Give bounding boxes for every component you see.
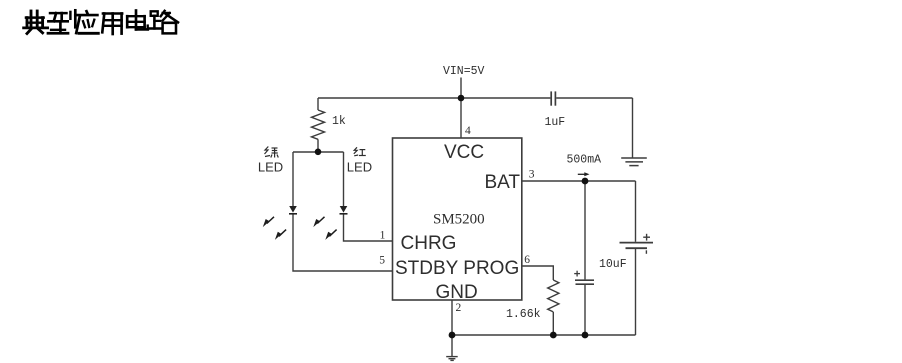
svg-text:CHRG: CHRG	[401, 233, 457, 254]
svg-text:1: 1	[380, 230, 386, 242]
svg-text:5: 5	[379, 255, 385, 267]
svg-text:10uF: 10uF	[599, 258, 627, 271]
svg-text:1.66k: 1.66k	[506, 308, 541, 321]
svg-text:3: 3	[529, 169, 535, 181]
svg-text:VIN=5V: VIN=5V	[443, 65, 485, 78]
svg-text:STDBY PROG: STDBY PROG	[395, 258, 519, 279]
svg-text:LED: LED	[347, 160, 372, 175]
svg-text:500mA: 500mA	[567, 153, 602, 166]
svg-text:1k: 1k	[332, 115, 346, 128]
svg-text:2: 2	[456, 302, 462, 314]
svg-text:VCC: VCC	[444, 142, 484, 163]
svg-text:SM5200: SM5200	[433, 212, 485, 228]
svg-text:BAT: BAT	[484, 172, 520, 193]
svg-text:4: 4	[465, 125, 471, 137]
svg-text:LED: LED	[258, 160, 283, 175]
svg-text:GND: GND	[436, 282, 478, 303]
svg-text:6: 6	[524, 254, 530, 266]
svg-text:1uF: 1uF	[545, 116, 566, 129]
